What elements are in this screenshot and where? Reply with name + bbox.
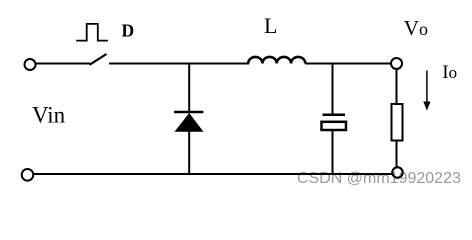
svg-text:D: D [122,21,135,41]
svg-text:Vo: Vo [404,16,428,40]
svg-text:Io: Io [442,62,457,83]
svg-text:L: L [264,13,277,38]
svg-text:CSDN @mm19920223: CSDN @mm19920223 [297,170,461,187]
svg-text:Vin: Vin [32,103,66,128]
